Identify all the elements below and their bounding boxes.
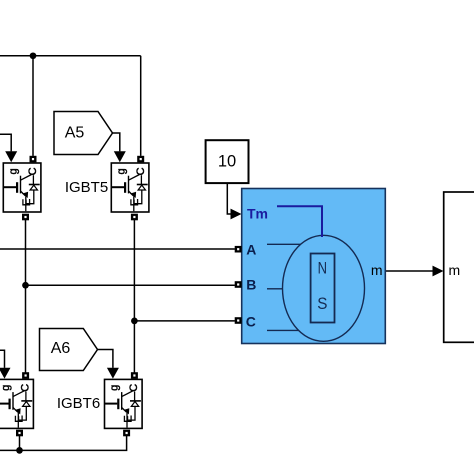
- svg-text:A5: A5: [65, 125, 85, 142]
- svg-text:m: m: [371, 262, 383, 278]
- svg-text:S: S: [317, 295, 327, 313]
- svg-text:m: m: [449, 262, 461, 278]
- svg-text:Tm: Tm: [247, 205, 268, 221]
- svg-text:C: C: [246, 313, 256, 329]
- svg-text:N: N: [318, 260, 327, 278]
- svg-text:10: 10: [218, 152, 236, 170]
- svg-text:IGBT5: IGBT5: [65, 179, 108, 196]
- svg-text:B: B: [246, 277, 256, 293]
- svg-text:IGBT6: IGBT6: [57, 395, 100, 412]
- svg-text:A: A: [246, 242, 256, 258]
- svg-text:A6: A6: [51, 340, 71, 357]
